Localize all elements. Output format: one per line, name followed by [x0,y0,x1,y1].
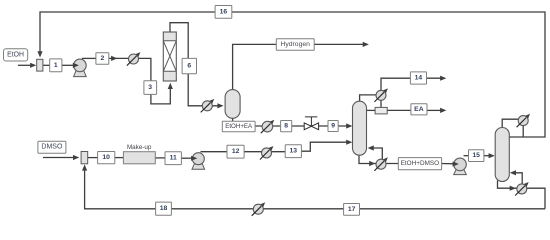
svg-text:15: 15 [472,152,480,159]
svg-text:13: 13 [290,148,298,155]
svg-text:10: 10 [102,154,110,161]
svg-text:Hydrogen: Hydrogen [280,41,310,48]
svg-text:16: 16 [220,8,228,15]
svg-text:EtOH: EtOH [7,51,24,58]
svg-text:12: 12 [232,148,240,155]
svg-text:18: 18 [160,205,168,212]
svg-text:14: 14 [415,75,423,82]
svg-text:3: 3 [148,84,152,91]
svg-text:EtOH+EA: EtOH+EA [225,123,253,130]
svg-text:6: 6 [187,63,191,70]
svg-text:EA: EA [414,106,424,113]
svg-text:8: 8 [284,123,288,130]
svg-text:2: 2 [101,55,105,62]
svg-text:11: 11 [170,155,177,162]
svg-text:EtOH+DMSO: EtOH+DMSO [401,160,440,167]
svg-text:17: 17 [348,206,356,213]
svg-text:Make-up: Make-up [127,144,152,151]
svg-text:9: 9 [331,123,335,130]
svg-text:DMSO: DMSO [41,144,63,151]
svg-text:1: 1 [54,62,58,69]
